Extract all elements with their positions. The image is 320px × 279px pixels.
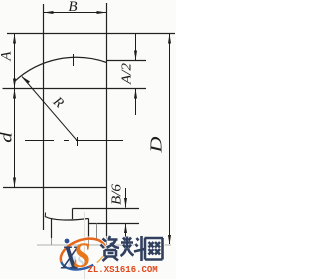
svg-text:D: D bbox=[147, 136, 166, 153]
watermark logo blue lower arc bbox=[61, 252, 93, 275]
dimension A line bbox=[14, 34, 16, 89]
arrow A/2 up bbox=[134, 89, 137, 99]
arrow D top bbox=[168, 34, 171, 44]
arrow B/6 up bbox=[124, 224, 127, 234]
watermark logo ellipse orange swoosh bbox=[57, 233, 110, 275]
wire: rim right edge vertical bbox=[106, 3, 108, 236]
wire: grey continuation x88 bbox=[88, 236, 90, 245]
svg-text:d: d bbox=[0, 132, 16, 143]
leader end tick bbox=[77, 137, 79, 146]
wire: bottom outer edge (greyed under watermark) bbox=[37, 244, 171, 246]
arrow R tip bbox=[22, 77, 30, 84]
char liao bbox=[121, 236, 145, 261]
wire: spoke vertical at x88 bbox=[88, 219, 90, 238]
dimension D line bbox=[169, 34, 171, 245]
crown arc R surface bbox=[15, 57, 107, 81]
wire: grey continuation x52 bbox=[51, 238, 53, 245]
watermark logo blue dot bbox=[65, 239, 70, 244]
dimension A/2 upper shaft bbox=[135, 34, 137, 61]
svg-text:R: R bbox=[49, 94, 66, 112]
wire: grey continuation x106 bbox=[106, 236, 108, 245]
wire: hub left vertical at x52 bbox=[51, 218, 53, 238]
wire: grey vertical x96 under watermark bbox=[96, 224, 98, 241]
watermark logo letter X bbox=[61, 239, 81, 277]
wire: rim left edge vertical bbox=[43, 4, 45, 230]
arrow D bottom bbox=[168, 235, 171, 245]
centerline short dash bbox=[64, 140, 69, 142]
svg-text:A: A bbox=[0, 51, 15, 62]
wire: bottom rim section bottom edge bbox=[89, 223, 140, 225]
arrow d bottom bbox=[13, 178, 16, 188]
dimension B/6 lower shaft bbox=[125, 224, 127, 241]
wire: bottom rim section top edge bbox=[73, 208, 140, 210]
wire: hub top edge horizontal bbox=[3, 187, 106, 189]
centerline dash long right bbox=[76, 140, 123, 142]
watermark url text bbox=[88, 265, 158, 275]
arrow A bottom bbox=[13, 79, 16, 89]
arrow A/2 down bbox=[134, 51, 137, 61]
centerline dash long left bbox=[25, 140, 54, 142]
arrow B left bbox=[44, 11, 54, 14]
svg-text:A/2: A/2 bbox=[120, 63, 135, 85]
arrow B right bbox=[97, 11, 107, 14]
arrow A top bbox=[13, 34, 16, 44]
arrow B/6 down bbox=[124, 198, 127, 208]
wire: arc right end level extension bbox=[107, 60, 147, 62]
label D bbox=[147, 136, 166, 153]
svg-text:B/6: B/6 bbox=[110, 184, 125, 205]
wire: bottom rim section left stub bbox=[72, 209, 74, 220]
char zi bbox=[101, 236, 120, 261]
wire: top outer edge horizontal bbox=[7, 33, 175, 35]
dimension B line bbox=[44, 12, 107, 14]
watermark text 资料网 (drawn strokes) bbox=[99, 235, 165, 262]
arrow d top bbox=[13, 89, 16, 99]
spoke sag curve start tick bbox=[44, 213, 46, 218]
dimension d line bbox=[14, 89, 16, 188]
radius leader line R bbox=[22, 77, 78, 142]
wire: rim inner edge horizontal bbox=[3, 88, 147, 90]
dimension A/2 lower shaft bbox=[135, 89, 137, 116]
dimension B/6 upper shaft bbox=[125, 188, 127, 208]
char wang bbox=[145, 238, 164, 260]
spoke sag curve (break line) bbox=[45, 217, 89, 221]
watermark logo letter S bbox=[73, 236, 90, 276]
watermark box left edge bbox=[84, 212, 86, 279]
arc apex tick bbox=[73, 54, 75, 66]
svg-text:B: B bbox=[68, 0, 77, 15]
